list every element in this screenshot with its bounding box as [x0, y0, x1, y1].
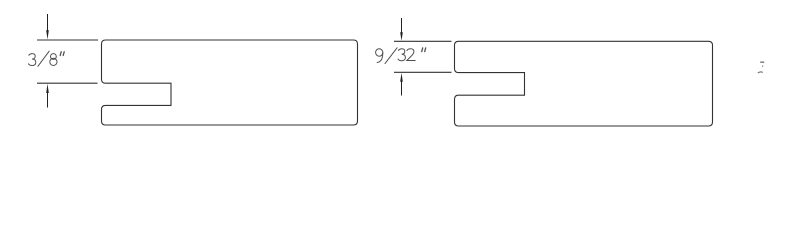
dimension 9/32": lower extension line — [394, 71, 452, 73]
dimension 3/8": upper extension line — [37, 39, 98, 41]
dimension 9/32": value label — [376, 48, 426, 64]
dimension 3/8": bottom arrow (pointing up) — [46, 84, 49, 108]
dimension 9/32": upper extension line — [394, 40, 452, 42]
dimension 3/8": lower extension line — [37, 82, 98, 84]
left profile outline — [102, 40, 358, 125]
dimension 9/32": top arrow (pointing down) — [400, 18, 403, 41]
right profile outline — [455, 41, 713, 126]
dimension 3/8": top arrow (pointing down) — [46, 14, 49, 40]
dimension 9/32": bottom arrow (pointing up) — [400, 73, 403, 96]
clipped character fragment at right edge — [758, 62, 764, 73]
dimension 3/8": value label — [28, 51, 64, 66]
